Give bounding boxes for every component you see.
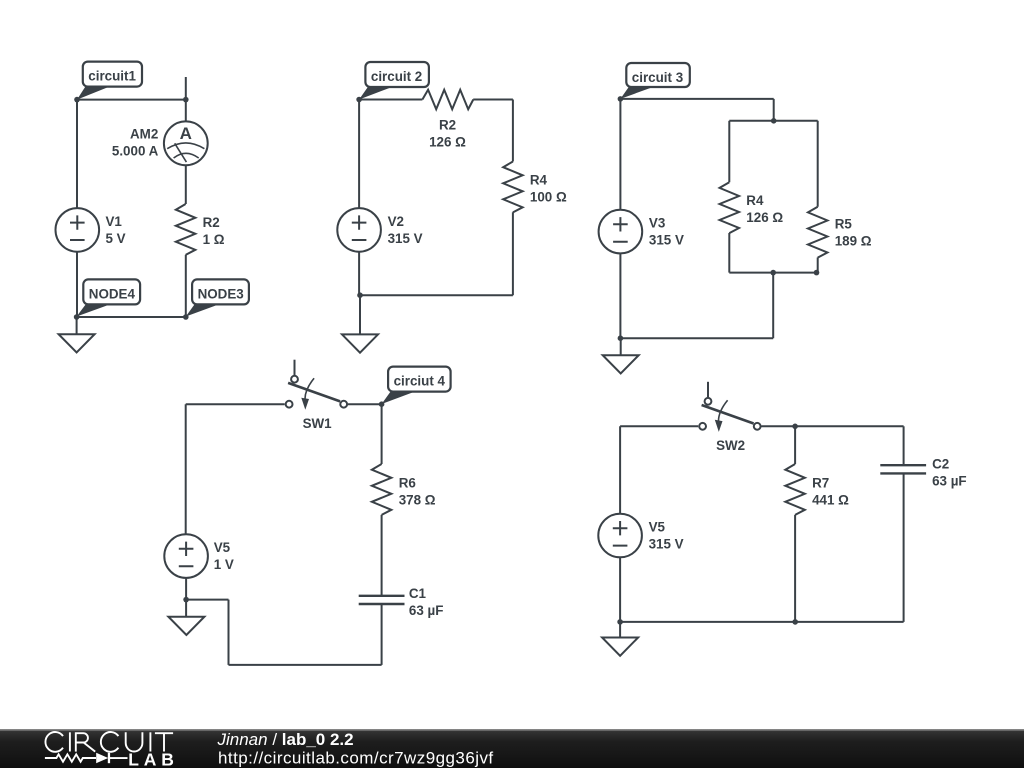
wire: circuit4 R6 bottom to C1 top <box>381 515 383 596</box>
wire: circuit2 top-right segment from R2 <box>473 99 513 101</box>
wire: circuit1 bottom horizontal <box>77 316 186 318</box>
svg-text:SW2: SW2 <box>716 438 745 453</box>
logo letter C <box>101 732 119 752</box>
label R7 / 441 Ω <box>812 475 849 507</box>
svg-text:126 Ω: 126 Ω <box>746 210 783 225</box>
wire: circuit5 SW2 to R7 node <box>761 425 795 427</box>
node dot: circuit1 NODE3 junction <box>183 314 189 320</box>
wire: circuit5 left rail lower (V5 bottom to node) <box>619 557 621 622</box>
svg-text:63 µF: 63 µF <box>409 603 444 618</box>
wire: circuit2 ground stub <box>359 295 361 334</box>
wire: circuit3 left rail lower (V3 bottom to node) <box>619 253 621 338</box>
node dot: circuit1 NODE4 junction <box>74 314 80 320</box>
node dot: circuit2 bottom-left junction <box>357 292 363 298</box>
wire: circuit1 right rail (node to ammeter top) <box>185 100 187 122</box>
resistor R6 <box>372 464 392 515</box>
svg-text:R2: R2 <box>439 117 456 132</box>
wire: circuit4 bottom horizontal <box>229 664 382 666</box>
capacitor C2 <box>880 465 926 473</box>
svg-text:R4: R4 <box>530 172 548 187</box>
ground (circuit3) <box>603 355 639 373</box>
wire: circuit4 C1 bottom to bottom corner <box>381 604 383 665</box>
logo letter C <box>45 732 63 752</box>
svg-text:189 Ω: 189 Ω <box>835 234 872 249</box>
svg-text:378 Ω: 378 Ω <box>399 492 436 507</box>
wire: circuit5 R7 branch upper <box>794 426 796 464</box>
wire: circuit5 top-left horizontal to SW2 <box>620 425 698 427</box>
voltage source V2 <box>337 208 381 252</box>
wire: circuit2 top-left segment to R2 <box>359 99 422 101</box>
wire: circuit5 C2 rail lower <box>903 473 905 622</box>
node label NODE3 <box>186 279 249 316</box>
wire: circuit4 node to riser <box>186 599 228 601</box>
label R4 / 126 Ω <box>746 193 783 225</box>
voltage source V5 (circuit5) <box>598 514 642 558</box>
svg-text:V1: V1 <box>106 214 123 229</box>
svg-text:C1: C1 <box>409 586 427 601</box>
wire: circuit2 right rail upper (to R4 top) <box>512 100 514 162</box>
svg-text:315 V: 315 V <box>649 537 684 552</box>
wire: circuit3 parallel bottom bar <box>729 272 817 274</box>
node label circuit1 <box>77 62 142 100</box>
node dot: circuit1 top-right junction <box>183 97 189 103</box>
label V5 / 315 V <box>649 520 684 552</box>
label V3 / 315 V <box>649 216 684 248</box>
wire: circuit3 drop from bottom bar <box>772 273 774 339</box>
svg-text:NODE4: NODE4 <box>89 286 136 301</box>
svg-text:126 Ω: 126 Ω <box>429 134 466 149</box>
label R6 / 378 Ω <box>399 475 436 507</box>
label C1 / 63 µF <box>409 586 444 618</box>
wire: circuit2 left rail upper (node to V2 top) <box>358 100 360 209</box>
svg-text:NODE3: NODE3 <box>198 286 244 301</box>
svg-text:V2: V2 <box>388 214 404 229</box>
svg-text:R2: R2 <box>203 215 220 230</box>
wire: circuit4 right rail (node to R6 top) <box>381 404 383 464</box>
ground (circuit4) <box>168 617 204 635</box>
logo letter I <box>149 732 151 751</box>
svg-text:circuit 3: circuit 3 <box>632 70 683 85</box>
node dot: circuit4 switch-output junction <box>379 401 385 407</box>
ground (circuit1) <box>59 334 95 352</box>
svg-text:circuit1: circuit1 <box>88 69 136 84</box>
wire: circuit1 R2 bottom to bottom node <box>185 255 187 317</box>
logo diode symbol <box>96 753 127 763</box>
wire: circuit4 left rail upper (corner to V5 top) <box>185 404 187 534</box>
wire: circuit2 right rail lower (R4 bottom to corner) <box>512 212 514 295</box>
svg-text:5 V: 5 V <box>106 231 126 246</box>
label V5 / 1 V <box>214 540 234 572</box>
resistor R2 (circuit1) <box>176 204 196 255</box>
svg-text:V5: V5 <box>214 540 231 555</box>
node label circiut 4 <box>382 367 451 404</box>
capacitor C1 <box>359 596 405 604</box>
resistor R4 (circuit2) <box>503 162 523 213</box>
svg-text:http://circuitlab.com/cr7wz9gg: http://circuitlab.com/cr7wz9gg36jvf <box>218 748 494 767</box>
label R2 / 126 Ω <box>429 117 466 149</box>
node label NODE4 <box>77 279 141 316</box>
svg-text:R5: R5 <box>835 217 853 232</box>
wire: circuit3 parallel top bar <box>729 120 817 122</box>
wire: circuit3 drop to parallel top bar <box>773 99 775 121</box>
wire: circuit5 bottom horizontal <box>620 621 904 623</box>
wire: circuit2 left rail lower (V2 bottom to node) <box>358 252 360 296</box>
wire: circuit5 R7 branch lower <box>794 515 796 622</box>
wire: circuit4 SW1 to node <box>348 403 382 405</box>
logo letter R <box>76 733 95 751</box>
node label circuit 3 <box>620 63 689 99</box>
wire: circuit3 top horizontal <box>620 98 773 100</box>
wire: circuit3 left rail upper (node to V3 top) <box>619 99 621 210</box>
wire: circuit1 left rail upper (node to V1 top) <box>76 100 78 209</box>
wire: circuit1 top horizontal <box>77 99 186 101</box>
wire: circuit4 bottom riser <box>228 600 230 665</box>
switch SW2 <box>699 382 760 453</box>
node dot: circuit2 top-left junction <box>356 97 362 103</box>
voltage source V1 <box>56 208 100 252</box>
label V1 / 5 V <box>106 214 126 246</box>
svg-text:100 Ω: 100 Ω <box>530 189 567 204</box>
svg-text:Jinnan / lab_0 2.2: Jinnan / lab_0 2.2 <box>217 730 354 749</box>
wire: circuit3 ground stub <box>620 338 622 355</box>
wire: circuit5 ground stub <box>619 622 621 638</box>
svg-text:1 V: 1 V <box>214 557 234 572</box>
node label circuit 2 <box>359 62 429 100</box>
wire: circuit4 ground stub <box>185 600 187 617</box>
svg-text:C2: C2 <box>932 456 949 471</box>
logo letter I <box>69 732 71 751</box>
svg-text:1 Ω: 1 Ω <box>203 232 225 247</box>
svg-text:5.000 A: 5.000 A <box>112 144 159 159</box>
footer bar top highlight edge <box>0 729 1024 730</box>
switch SW1 <box>286 360 347 431</box>
label V2 / 315 V <box>388 214 423 246</box>
label R5 / 189 Ω <box>835 217 872 249</box>
node dot: circuit3 bottom-left junction <box>618 335 624 341</box>
ground (circuit5) <box>602 638 638 656</box>
wire: circuit3 R4 branch lower <box>728 233 730 273</box>
svg-text:V3: V3 <box>649 216 665 231</box>
node dot: circuit5 bottom R7 junction <box>792 619 798 625</box>
wire: circuit1 top rail stub above ammeter <box>185 77 187 100</box>
svg-text:circiut 4: circiut 4 <box>394 374 446 389</box>
svg-text:315 V: 315 V <box>649 233 684 248</box>
svg-text:315 V: 315 V <box>388 231 423 246</box>
svg-text:63 µF: 63 µF <box>932 473 967 488</box>
wire: circuit4 left rail lower (V5 bottom to node) <box>185 578 187 600</box>
wire: circuit3 R4 branch upper <box>728 121 730 182</box>
svg-text:A: A <box>180 124 192 143</box>
node dot: circuit5 bottom-left junction <box>617 619 623 625</box>
svg-text:V5: V5 <box>649 520 666 535</box>
logo letter U <box>126 732 143 751</box>
wire: circuit3 bottom horizontal <box>620 337 773 339</box>
svg-text:441 Ω: 441 Ω <box>812 492 849 507</box>
svg-text:R6: R6 <box>399 475 416 490</box>
label AM2 / 5.000 A <box>112 127 159 159</box>
node dot: circuit5 switch-output junction <box>792 424 798 430</box>
node dot: circuit3 top-left junction <box>618 96 624 102</box>
node dot: circuit3 parallel bottom right corner <box>814 270 820 276</box>
voltage source V3 <box>599 210 643 254</box>
wire: circuit5 top-right horizontal to C2 corner <box>795 425 904 427</box>
logo resistor zigzag with leads <box>45 754 96 761</box>
svg-text:R4: R4 <box>746 193 764 208</box>
svg-text:SW1: SW1 <box>303 416 333 431</box>
wire: circuit2 bottom horizontal <box>359 294 513 296</box>
resistor R5 (circuit3) <box>808 207 828 258</box>
svg-text:R7: R7 <box>812 475 829 490</box>
wire: circuit5 left rail upper (corner to V5 top) <box>619 426 621 513</box>
wire: circuit1 left rail lower (V1 bottom to node) <box>76 252 78 317</box>
wire: circuit5 C2 rail upper <box>903 426 905 465</box>
ground (circuit2) <box>342 334 378 352</box>
node dot: circuit3 parallel top junction <box>771 118 777 124</box>
wire: circuit3 R5 branch lower <box>817 258 819 273</box>
wire: circuit4 top-left horizontal to SW1 <box>186 403 285 405</box>
footer bar background <box>0 729 1024 768</box>
label R4 / 100 Ω <box>530 172 567 204</box>
logo letter T <box>155 733 173 751</box>
label C2 / 63 µF <box>932 456 967 488</box>
ammeter AM2 <box>164 121 208 165</box>
label R2 / 1 Ω <box>203 215 225 247</box>
svg-text:circuit 2: circuit 2 <box>371 69 422 84</box>
resistor R7 <box>785 464 805 515</box>
node dot: circuit1 top-left junction <box>74 97 80 103</box>
wire: circuit1 ground stub <box>76 317 78 334</box>
svg-text:LAB: LAB <box>128 750 178 768</box>
wire: circuit1 ammeter bottom to R2 top <box>185 165 187 204</box>
resistor R2 (circuit2, horizontal) <box>422 90 473 110</box>
node dot: circuit3 parallel bottom junction <box>770 270 776 276</box>
voltage source V5 (circuit4) <box>164 534 208 578</box>
node dot: circuit4 ground junction <box>183 597 189 603</box>
resistor R4 (circuit3) <box>720 182 740 233</box>
svg-text:AM2: AM2 <box>130 127 158 142</box>
wire: circuit3 R5 branch upper <box>817 121 819 207</box>
